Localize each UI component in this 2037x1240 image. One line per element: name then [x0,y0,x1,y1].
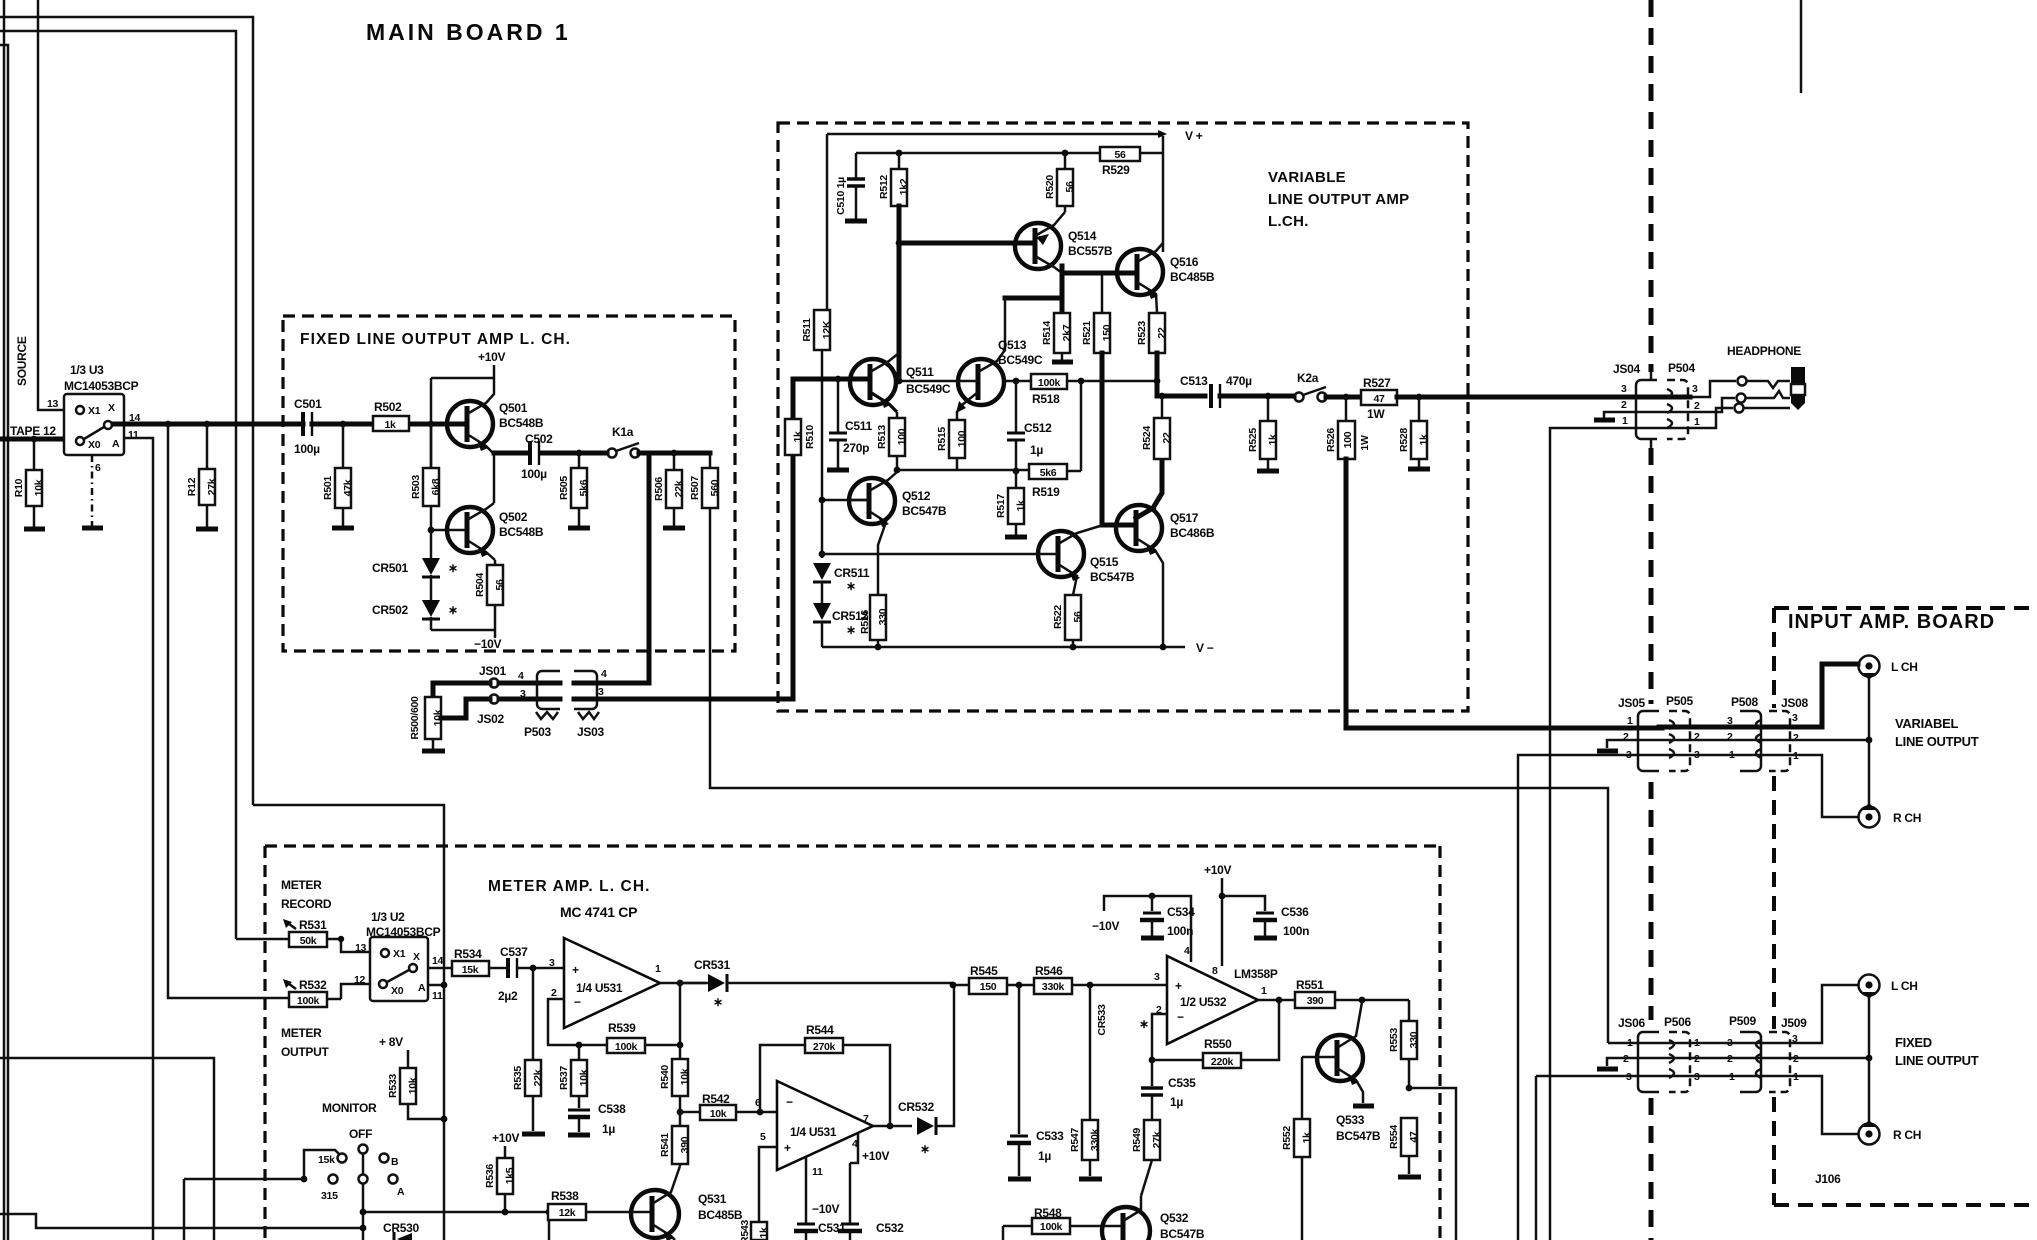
wire U531a output [660,982,706,985]
box VARIABLE LINE OUTPUT AMP dashed [778,123,1468,711]
diode CR532 [898,985,954,1156]
svg-text:R552: R552 [1281,1126,1293,1150]
wire R523 bottom thick to output node [1155,353,1160,381]
svg-text:OUTPUT: OUTPUT [281,1045,330,1059]
svg-text:C537: C537 [500,945,528,959]
svg-text:R521: R521 [1081,321,1093,345]
svg-text:R537: R537 [558,1066,570,1090]
resistor R533 10k [387,1068,444,1119]
svg-text:METER: METER [281,1026,322,1040]
wire +10V to C536 [1222,896,1265,911]
svg-text:150: 150 [1101,324,1113,341]
svg-text:∗: ∗ [1139,1017,1149,1031]
node pin11 junction [441,982,448,989]
ground R525 [1257,469,1279,474]
svg-text:R545: R545 [970,964,998,978]
resistor R528 1k [1398,397,1430,467]
node C534 junction [1149,893,1156,900]
svg-text:14: 14 [432,955,444,967]
node R539/R540 [677,1042,684,1049]
wire U532 pin2 loop [1152,1014,1167,1060]
svg-text:LINE OUTPUT: LINE OUTPUT [1895,1053,1979,1068]
svg-text:R510: R510 [804,425,816,449]
svg-text:−10V: −10V [474,637,501,651]
svg-text:R554: R554 [1388,1125,1400,1149]
ground R505 [568,526,590,531]
power V+ label [1158,129,1203,143]
svg-text:L CH: L CH [1891,979,1918,993]
switch contact tip [1738,377,1747,386]
box FIXED LINE OUTPUT AMP dashed [283,316,735,651]
node rail R522 [1070,644,1077,651]
node C537/R535 junction [530,965,537,972]
ground R10 [24,527,45,532]
svg-text:C536: C536 [1281,905,1309,919]
svg-text:R12: R12 [186,477,198,496]
wire +10V rail to R503 top [431,378,494,468]
svg-text:A: A [397,1186,405,1198]
node output R524 [1159,393,1166,400]
svg-text:CR511: CR511 [834,566,870,580]
switch contact sleeve [1735,404,1744,413]
wire R521 bottom thick down [1100,353,1105,525]
svg-text:Q512: Q512 [902,489,931,503]
svg-text:A: A [418,982,426,994]
svg-text:1/4 U531: 1/4 U531 [576,981,623,995]
svg-text:6: 6 [95,462,101,474]
node output/R544 [887,1123,894,1130]
wire JS08 pin1 to R CH jack [1790,755,1858,817]
svg-text:100: 100 [1342,431,1354,448]
wire K1a to junction and down to JS01 [639,453,649,683]
svg-text:3: 3 [1626,749,1632,761]
wire JS08 pin2 to common node [1790,739,1869,742]
resistor R549 27k [1131,1120,1163,1196]
svg-text:Q533: Q533 [1336,1113,1365,1127]
svg-text:8: 8 [1212,965,1218,977]
svg-text:INPUT AMP. BOARD: INPUT AMP. BOARD [1788,611,1995,633]
transistor Q531 BC485B [630,1166,743,1240]
ground R506 [663,526,685,531]
node output/R539 [677,980,684,987]
node junction main/R12 [204,421,211,428]
svg-text:100n: 100n [1167,924,1193,938]
connector P508 [1727,695,1761,771]
ground R547 [1079,1177,1102,1182]
resistor R503 6k8 [410,424,442,530]
svg-text:27k: 27k [206,478,218,495]
svg-text:R501: R501 [322,476,334,500]
svg-text:R539: R539 [608,1021,636,1035]
node rail Q517 emitter [1160,644,1167,651]
wire fixed pin1 row through connectors [1608,1043,1790,1076]
svg-text:1k2: 1k2 [898,178,910,195]
svg-text:3: 3 [1154,971,1160,983]
svg-text:7: 7 [863,1113,869,1125]
wire 315 contact to left [184,1179,304,1240]
svg-text:27k: 27k [1151,1131,1163,1148]
svg-text:5k6: 5k6 [578,479,590,496]
node R518 right [1078,378,1085,385]
resistor R504 56 [474,560,506,630]
transistor Q516 BC485B [1112,243,1215,313]
svg-text:100n: 100n [1283,924,1309,938]
svg-text:4: 4 [1184,945,1190,957]
svg-text:+10V: +10V [478,350,505,364]
wire base Q502 [431,529,450,532]
resistor R510 1k [785,419,816,455]
svg-text:RECORD: RECORD [281,897,332,911]
resistor R538 12k [548,1189,630,1220]
svg-text:330k: 330k [1042,981,1065,993]
svg-text:R551: R551 [1296,978,1324,992]
svg-text:X: X [413,951,420,963]
svg-text:METER AMP. L. CH.: METER AMP. L. CH. [488,878,651,895]
svg-text:R523: R523 [1136,321,1148,345]
svg-text:∗: ∗ [846,623,856,637]
resistor R534 15k [452,947,506,976]
svg-text:R546: R546 [1035,964,1063,978]
resistor R514 2k7 [1041,313,1073,360]
wire U2 pin11 to vertical 444 [428,984,444,987]
wire common down to R CH [1868,740,1871,807]
svg-text:CR501: CR501 [372,561,408,575]
svg-text:47: 47 [1408,1131,1420,1143]
wire bias chain down [821,500,824,558]
svg-text:P505: P505 [1666,694,1693,708]
svg-text:BC547B: BC547B [902,504,947,518]
svg-text:R527: R527 [1363,376,1391,390]
box INPUT AMP BOARD dashed [1774,608,2037,1205]
transistor Q502 BC548B [446,503,544,560]
svg-text:BC549C: BC549C [998,353,1043,367]
svg-text:P509: P509 [1729,1014,1756,1028]
svg-text:50k: 50k [300,935,317,947]
wire JS01 row pin4 [433,681,560,686]
wire U532 output [1258,999,1295,1002]
node C512 bottom junction [1013,468,1020,475]
transistor Q512 BC547B [847,472,947,595]
svg-text:1k: 1k [384,419,396,431]
node Q514 base junction [896,240,903,247]
svg-text:R547: R547 [1069,1128,1081,1152]
capacitor C534 100n [1140,896,1195,938]
ground R514 [1052,360,1073,365]
resistor R541 390 [659,1126,691,1166]
wire R544 feedback loop [760,1045,890,1126]
svg-text:V −: V − [1196,641,1214,655]
svg-text:560: 560 [709,479,721,496]
wire phone sleeve contact [1690,408,1733,428]
node R506 junction [671,450,678,457]
svg-text:56: 56 [1064,181,1076,193]
svg-text:10k: 10k [33,479,45,496]
svg-text:1µ: 1µ [602,1122,615,1136]
svg-text:4: 4 [518,670,524,682]
svg-text:BC485B: BC485B [1170,270,1215,284]
svg-text:1/4 U531: 1/4 U531 [790,1125,837,1139]
svg-text:2k7: 2k7 [1061,324,1073,341]
switch monitor contacts [301,1145,405,1240]
node pin2/R550 [1149,1057,1156,1064]
svg-text:JS08: JS08 [1781,696,1808,710]
wire drop 549 down [548,1212,551,1240]
svg-text:J106: J106 [1815,1172,1841,1186]
svg-text:2: 2 [1621,399,1627,411]
svg-text:X1: X1 [393,948,406,960]
svg-text:330k: 330k [1089,1128,1101,1151]
ground R535 [522,1132,545,1137]
svg-text:R549: R549 [1131,1128,1143,1152]
diode CR512 [813,603,868,647]
wire JS02 row pin3 tap [441,699,560,718]
svg-text:OFF: OFF [349,1127,372,1141]
svg-text:270p: 270p [843,441,869,455]
svg-text:R514: R514 [1041,321,1053,345]
svg-text:MONITOR: MONITOR [322,1101,377,1115]
ground R554 [1398,1175,1421,1180]
svg-text:LINE OUTPUT AMP: LINE OUTPUT AMP [1268,191,1409,208]
svg-text:1µ: 1µ [1030,443,1043,457]
svg-text:15k: 15k [462,964,479,976]
svg-text:5k6: 5k6 [1040,467,1057,479]
svg-text:R502: R502 [374,400,402,414]
svg-text:−: − [786,1095,793,1109]
resistor R10 10k [13,436,45,527]
resistor R526 100 1W [1325,397,1371,459]
resistor R527 47 1W [1361,376,1690,421]
switch U2 1/3 MC14053BCP [354,910,444,1002]
svg-text:47k: 47k [342,479,354,496]
wire JS09 pin2 to common [1790,1057,1869,1060]
svg-text:1: 1 [1622,415,1628,427]
wire JS03 pin3 long to R510 [574,454,793,699]
resistor R523 22 [1136,313,1168,353]
svg-text:CR502: CR502 [372,603,408,617]
svg-text:C512: C512 [1024,421,1052,435]
ground JS06 pin2 [1597,1067,1618,1072]
svg-text:R CH: R CH [1893,1128,1921,1142]
capacitor C532 [838,1163,904,1240]
node output top junction [1154,378,1161,385]
wire Q514 collector node to Q516 base [1062,266,1112,313]
node rail R536 [502,1209,509,1216]
svg-text:R524: R524 [1141,426,1153,450]
ground R528 [1408,467,1430,472]
wire JS06 pin3 row [1536,1076,1659,1240]
svg-text:1µ: 1µ [1038,1149,1051,1163]
resistor R519 5k6 [1029,381,1081,499]
svg-text:R540: R540 [659,1065,671,1089]
node R539/R537 [576,1042,583,1049]
svg-text:10k: 10k [710,1108,727,1120]
connector P509 [1727,1014,1761,1092]
wire L CH down to common node [1868,677,1871,740]
svg-text:K2a: K2a [1297,371,1319,385]
jack L CH variabel [1859,656,1918,681]
svg-text:CR531: CR531 [694,958,730,972]
node rail drop 549 [546,1209,553,1216]
power -10V C534 stub [1092,896,1191,962]
svg-text:C534: C534 [1167,905,1195,919]
wire main signal X to C501 [113,422,301,427]
svg-text:LINE OUTPUT: LINE OUTPUT [1895,734,1979,749]
svg-text:R525: R525 [1247,428,1259,452]
resistor R540 10k [659,1045,691,1126]
connector P503 [518,670,560,739]
transistor Q501 BC548B [444,378,544,453]
wire emitter degeneration rail [897,469,1029,472]
node R526 top [1343,394,1350,401]
node R528 top [1416,394,1423,401]
op-amp U531b 1/4 [755,1081,873,1170]
capacitor C511 270p [829,376,872,468]
resistor R537 10k [558,1045,590,1108]
svg-text:2: 2 [1793,732,1799,744]
node R546/CR533 [1087,982,1094,989]
switch contact JS02 [477,695,504,727]
svg-text:∗: ∗ [713,995,723,1009]
resistor R512 1k2 [878,153,910,206]
node output/R550 [1276,997,1283,1004]
svg-text:BC486B: BC486B [1170,526,1215,540]
svg-text:BC547B: BC547B [1160,1227,1205,1240]
connector P504 [1667,361,1700,439]
svg-text:JS04: JS04 [1613,362,1640,376]
wire TAPE input [0,437,73,442]
resistor R521 150 [1081,273,1113,353]
wire U531a pin2 loop [548,999,607,1045]
svg-text:1k: 1k [1015,500,1027,512]
resistor R547 330k [1069,1120,1101,1176]
transistor Q532 BC547B [1102,1196,1205,1240]
capacitor C512 1u [1007,378,1052,471]
wire left second vertical [0,45,8,1240]
svg-text:1: 1 [655,963,661,975]
svg-text:−: − [1177,1010,1184,1024]
svg-text:10k: 10k [407,1077,419,1094]
ground R500 [422,749,445,754]
node Q502 base [428,527,435,534]
svg-text:JS06: JS06 [1618,1016,1645,1030]
svg-text:470µ: 470µ [1226,374,1252,388]
resistor R518 100k [1004,374,1157,406]
svg-text:2µ2: 2µ2 [498,989,518,1003]
svg-text:R503: R503 [410,475,422,499]
node variabel common [1866,737,1873,744]
svg-text:3: 3 [1792,712,1798,724]
svg-text:22k: 22k [673,480,685,497]
svg-text:P503: P503 [524,725,551,739]
svg-text:1k: 1k [758,1227,770,1239]
svg-text:+10V: +10V [1204,863,1231,877]
svg-text:315: 315 [321,1190,338,1202]
svg-text:R534: R534 [454,947,482,961]
resistor R522 56 [1052,595,1084,647]
svg-text:R500/600: R500/600 [409,696,421,740]
resistor R552 1k [1281,1119,1313,1240]
svg-text:11: 11 [432,990,443,1002]
wire top corner inner [0,31,236,939]
node junction main/168 [165,421,172,428]
wire SOURCE vertical [38,0,72,410]
potentiometer R531 50k [252,918,377,952]
resistor R542 10k [680,1092,777,1120]
wire V+ top rail [827,133,1158,136]
svg-text:3: 3 [520,688,526,700]
wire Q501 emitter node down to Q502 collector [493,453,496,503]
resistor R501 47k [322,424,354,526]
svg-text:R533: R533 [387,1074,399,1098]
wire output node [1157,381,1205,396]
svg-text:C532: C532 [876,1221,904,1235]
switch contact JS01 [479,664,506,688]
svg-text:R541: R541 [659,1133,671,1157]
svg-text:R550: R550 [1204,1037,1232,1051]
resistor R520 56 [1044,153,1076,212]
connector JS03 [574,668,607,739]
node C502/R505 [576,450,583,457]
diode CR502 [372,600,458,630]
svg-text:R504: R504 [474,573,486,597]
svg-text:13: 13 [47,398,59,410]
jack R CH fixed [1859,1120,1922,1145]
resistor R546 330k [1034,964,1167,994]
resistor R517 1k [995,471,1027,535]
node R540/R542 [677,1109,684,1116]
svg-text:22: 22 [1161,432,1173,444]
resistor R500/600 10k [409,683,444,749]
resistor R516 330 [859,595,889,647]
wire variabel pin3 row thick through connectors [1659,725,1790,730]
svg-text:Q517: Q517 [1170,511,1199,525]
resistor R543 [739,1220,770,1240]
capacitor C533 1u [1007,985,1064,1176]
ground R501 [332,526,354,531]
wire V+ left drop to R511 [826,134,829,310]
ground C510 [845,219,867,224]
svg-text:3: 3 [598,686,604,698]
svg-text:JS05: JS05 [1618,696,1645,710]
svg-text:R511: R511 [801,318,813,342]
node emitter rail left [894,467,901,474]
wire R512 bottom thick to Q511 collector [897,206,902,381]
resistor R524 22 [1141,396,1173,459]
connector JS08 [1769,696,1808,771]
svg-text:∗: ∗ [920,1142,930,1156]
wire Q514 base rail [899,241,1034,246]
svg-text:P506: P506 [1664,1015,1691,1029]
svg-text:Q502: Q502 [499,510,528,524]
svg-text:3: 3 [1621,383,1627,395]
power +10V R536 [492,1131,519,1158]
wire left edge vertical [3,0,6,1240]
svg-text:R526: R526 [1325,428,1337,452]
svg-text:10k: 10k [578,1069,590,1086]
svg-text:C511: C511 [845,419,872,433]
svg-text:R519: R519 [1032,485,1060,499]
svg-text:C533: C533 [1036,1129,1064,1143]
transistor Q514 BC557B [1015,212,1113,273]
power +10V U532 [1204,863,1231,966]
wire K2a to R527 [1326,395,1361,400]
svg-text:−10V: −10V [1092,919,1119,933]
capacitor C531 [794,1157,846,1240]
power +10V fixed [478,350,505,378]
svg-text:R543: R543 [739,1220,751,1240]
resistor R553 330 [1388,1000,1420,1088]
diode CR530 [383,1221,419,1240]
